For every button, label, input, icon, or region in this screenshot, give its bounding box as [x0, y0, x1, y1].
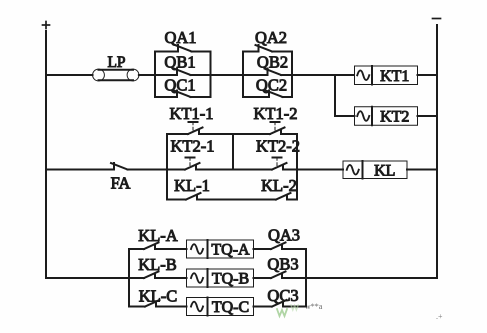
- wire: group2 to coil KT1: [292, 74, 353, 76]
- contact QA2: [243, 45, 292, 52]
- wire: left rail to fuse LP: [46, 74, 93, 76]
- wire: KT2 to right rail: [418, 115, 438, 117]
- svg-text:KL-1: KL-1: [174, 176, 210, 195]
- wire: KL to right rail: [407, 169, 437, 171]
- svg-text:w**a: w**a: [305, 302, 323, 311]
- svg-text:KT2-1: KT2-1: [171, 137, 215, 156]
- contact KL-1: [167, 193, 233, 200]
- svg-text:KT2: KT2: [380, 109, 409, 126]
- wire: matrix group to coil KL: [297, 169, 343, 171]
- svg-text:KL: KL: [374, 162, 395, 179]
- svg-text:KL-C: KL-C: [139, 287, 178, 306]
- coil TQ-A: [187, 240, 254, 259]
- parallel group 2 left bracket: [242, 52, 244, 98]
- matrix group left bracket: [166, 134, 168, 200]
- svg-text:QC1: QC1: [164, 76, 195, 95]
- svg-text:LP: LP: [107, 54, 125, 71]
- contact KL-C: [129, 300, 187, 307]
- svg-text:QB2: QB2: [257, 53, 288, 72]
- svg-text:TQ-C: TQ-C: [212, 299, 249, 316]
- contact QA1: [155, 45, 211, 52]
- wire: bottom group to right rail: [306, 277, 437, 279]
- svg-text:QA2: QA2: [255, 28, 287, 47]
- plus sign: [43, 22, 50, 29]
- minus sign: [433, 18, 441, 20]
- svg-text:.+: .+: [436, 312, 443, 321]
- parallel group 1 left bracket: [154, 52, 156, 98]
- svg-text:TQ-B: TQ-B: [212, 271, 249, 288]
- svg-text:QB3: QB3: [267, 255, 298, 274]
- contact QB3: [254, 272, 307, 279]
- svg-text:QA1: QA1: [164, 28, 196, 47]
- contact QC2: [243, 91, 292, 98]
- bottom group left bracket: [128, 249, 130, 307]
- svg-text:KT1: KT1: [380, 68, 409, 85]
- left supply rail (+): [45, 31, 47, 278]
- contact QB1: [155, 69, 211, 76]
- wire: branch to coil KT2: [335, 115, 355, 117]
- right supply rail (-): [436, 25, 438, 278]
- wire: group1 to group2: [211, 74, 244, 76]
- svg-text:QC3: QC3: [267, 286, 298, 305]
- branch wire down to KT2: [334, 75, 336, 116]
- wire: fuse to group QA1/QB1/QC1: [139, 74, 155, 76]
- contact QC3: [254, 300, 307, 307]
- svg-text:QB1: QB1: [164, 53, 195, 72]
- contact FA: [46, 163, 167, 170]
- parallel group 2 right bracket: [291, 52, 293, 98]
- contact KL-B: [129, 272, 187, 279]
- wire: KT1 to right rail: [418, 74, 438, 76]
- parallel group 1 right bracket: [210, 52, 212, 98]
- bottom group right bracket: [305, 249, 307, 307]
- svg-text:KL-2: KL-2: [261, 176, 297, 195]
- svg-text:KT1-2: KT1-2: [254, 104, 298, 123]
- svg-text:TQ-A: TQ-A: [211, 242, 250, 259]
- contact QA3: [254, 243, 307, 250]
- svg-text:QC2: QC2: [256, 76, 287, 95]
- contact KT2-2 (delayed): [233, 158, 297, 170]
- svg-text:FA: FA: [111, 174, 131, 193]
- coil TQ-B: [187, 269, 254, 288]
- svg-text:KT1-1: KT1-1: [170, 104, 214, 123]
- contact KL-2: [233, 193, 297, 200]
- contact KT1-1 (delayed): [167, 122, 233, 134]
- relay coil KT2: [355, 107, 418, 126]
- relay coil KT1: [355, 66, 418, 85]
- contact KT2-1 (delayed): [167, 158, 233, 170]
- contact KT1-2 (delayed): [233, 122, 297, 134]
- contact QB2: [243, 69, 292, 76]
- wire: left rail to bottom group: [46, 277, 129, 279]
- coil TQ-C: [187, 298, 254, 317]
- fuse LP: [93, 69, 139, 81]
- matrix group right bracket: [296, 134, 298, 200]
- relay coil KL: [343, 161, 407, 179]
- matrix group middle bracket: [232, 134, 234, 170]
- svg-text:KT2-2: KT2-2: [256, 137, 300, 156]
- svg-text:KL-A: KL-A: [138, 226, 177, 245]
- svg-text:KL-B: KL-B: [138, 255, 177, 274]
- contact KL-A: [129, 243, 187, 250]
- svg-text:QA3: QA3: [268, 226, 300, 245]
- contact QC1: [155, 91, 211, 98]
- green watermark: [277, 302, 443, 321]
